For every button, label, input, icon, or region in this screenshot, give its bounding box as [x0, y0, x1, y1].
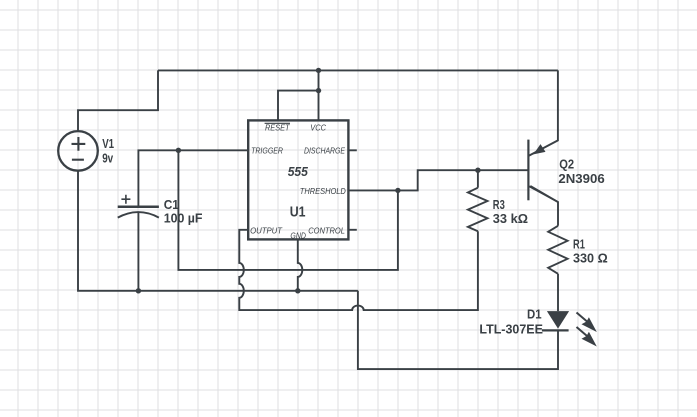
label V1: [102, 136, 114, 151]
wire top VCC rail: [158, 69, 558, 71]
label U1: [290, 204, 306, 221]
transistor Q2: [528, 140, 558, 202]
wire THRESHOLD stub: [348, 189, 398, 191]
pin label VCC: [310, 124, 326, 133]
svg-text:U1: U1: [290, 204, 306, 221]
wire R1 to LED anode: [557, 274, 559, 311]
label LTL-307EE: [479, 321, 543, 336]
label R1: [573, 236, 585, 251]
wire ground rail to LED cathode: [358, 291, 558, 369]
svg-text:555: 555: [288, 164, 309, 179]
wire C1 bottom lead: [137, 213, 139, 291]
capacitor C1: [118, 195, 159, 218]
wire R3 top lead: [477, 170, 479, 188]
wire CONTROL stub: [348, 229, 357, 231]
wire trigger-threshold link: [178, 150, 398, 270]
label 100 uF: [164, 211, 203, 226]
voltage source V1: [58, 131, 98, 171]
node junction C1 ground: [136, 288, 141, 293]
svg-text:RESET: RESET: [265, 124, 291, 133]
svg-text:R3: R3: [493, 197, 505, 212]
pin label GND: [290, 231, 306, 240]
svg-text:VCC: VCC: [310, 124, 326, 133]
wire RESET link: [278, 91, 319, 121]
wire collector to R1: [530, 186, 558, 226]
node junction trigger: [176, 148, 181, 153]
node junction R3 top / base: [475, 168, 480, 173]
label 33 kOhm: [493, 211, 528, 226]
svg-text:GND: GND: [290, 231, 306, 240]
label 2N3906: [558, 171, 604, 186]
label Q2: [559, 157, 574, 172]
svg-text:Q2: Q2: [559, 157, 574, 172]
label D1: [527, 306, 542, 321]
resistor R1: [548, 226, 567, 274]
node junction GND ground: [295, 288, 300, 293]
LED D1: [542, 311, 569, 330]
svg-text:2N3906: 2N3906: [558, 171, 604, 186]
svg-text:LTL-307EE: LTL-307EE: [479, 321, 543, 336]
label R3: [493, 197, 505, 212]
op-amp U1 555 timer box: [248, 120, 348, 239]
svg-text:DISCHARGE: DISCHARGE: [304, 147, 346, 156]
wire threshold to base: [398, 170, 528, 190]
wire DISCHARGE stub: [348, 149, 357, 151]
svg-text:R1: R1: [573, 236, 585, 251]
resistor R3: [468, 188, 488, 232]
node junction VCC rail: [316, 68, 321, 73]
wire emitter drop from rail: [529, 70, 558, 155]
svg-text:33 kΩ: 33 kΩ: [493, 211, 528, 226]
LED light arrow 1: [577, 313, 597, 333]
wire OUTPUT with hops: [239, 230, 478, 310]
svg-text:330 Ω: 330 Ω: [573, 250, 608, 265]
label 9v: [102, 150, 114, 165]
svg-text:V1: V1: [102, 136, 114, 151]
svg-text:100 µF: 100 µF: [164, 211, 203, 226]
label 330 Ohm: [573, 250, 608, 265]
svg-text:CONTROL: CONTROL: [308, 226, 345, 235]
wire TRIGGER to C1: [138, 150, 248, 205]
svg-text:C1: C1: [164, 197, 179, 212]
pin label DISCHARGE: [304, 147, 346, 156]
label 555: [288, 164, 309, 179]
label C1: [164, 197, 179, 212]
svg-text:D1: D1: [527, 306, 542, 321]
svg-text:9v: 9v: [102, 150, 114, 165]
LED light arrow 2: [577, 327, 597, 347]
svg-text:OUTPUT: OUTPUT: [250, 227, 283, 236]
svg-text:TRIGGER: TRIGGER: [251, 147, 283, 156]
pin label TRIGGER: [251, 147, 283, 156]
pin label THRESHOLD: [300, 187, 346, 196]
node junction threshold: [395, 188, 400, 193]
wire VCC drop to pin VCC: [318, 70, 320, 120]
svg-text:THRESHOLD: THRESHOLD: [300, 187, 346, 196]
wire V1 bottom to ground rail: [78, 171, 358, 291]
pin label CONTROL: [308, 226, 345, 235]
node junction RESET/VCC: [316, 88, 321, 93]
wire V1 top lead to top rail: [78, 70, 158, 131]
pin label OUTPUT: [250, 227, 283, 236]
wire R3 bottom lead: [477, 231, 479, 311]
pin label RESET with overline: [265, 123, 291, 132]
wire GND stub with hop: [298, 239, 303, 290]
